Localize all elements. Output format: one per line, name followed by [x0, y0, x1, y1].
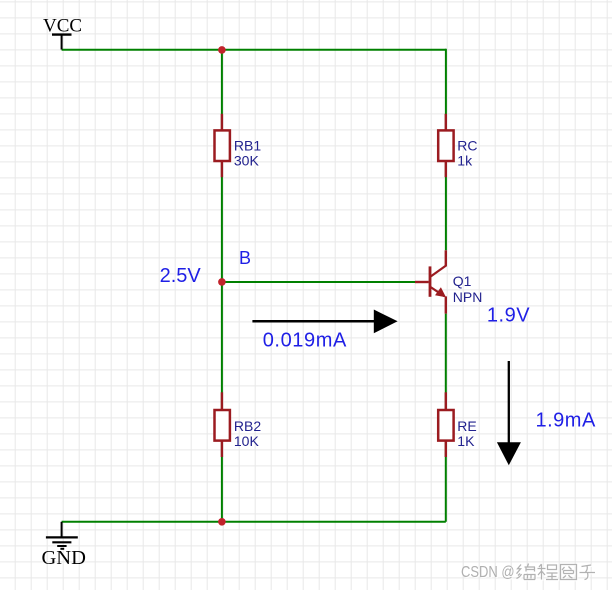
label GND: [42, 547, 86, 569]
label RC 1k: [457, 138, 477, 169]
annotation 1.9V: [487, 305, 530, 327]
svg-text:CSDN @: CSDN @: [461, 564, 515, 581]
svg-text:RB2: RB2: [234, 418, 261, 434]
svg-text:1.9V: 1.9V: [487, 305, 530, 327]
transistor Q1: [415, 250, 446, 313]
annotation 1.9mA: [536, 410, 596, 432]
label RE 1K: [457, 418, 476, 449]
label RB2 10K: [234, 418, 261, 449]
arrow base current right: [252, 310, 397, 334]
label VCC: [43, 15, 82, 36]
wire top rail VCC to RC branch: [62, 49, 446, 51]
annotation 0.019mA: [263, 330, 347, 352]
resistor RB2: [215, 392, 230, 457]
svg-text:10K: 10K: [234, 433, 260, 449]
svg-text:Q1: Q1: [453, 273, 472, 289]
svg-text:0.019mA: 0.019mA: [263, 330, 347, 352]
label Q1 NPN: [453, 273, 483, 305]
svg-text:RE: RE: [457, 418, 476, 434]
svg-text:30K: 30K: [234, 153, 260, 169]
power VCC: [52, 35, 72, 50]
svg-text:NPN: NPN: [453, 289, 483, 305]
arrow emitter current down: [497, 361, 521, 465]
watermark CSDN: [461, 564, 596, 583]
svg-text:1K: 1K: [457, 433, 475, 449]
svg-text:RC: RC: [457, 138, 477, 154]
junction bottom: [218, 518, 226, 526]
svg-text:2.5V: 2.5V: [160, 265, 202, 287]
label RB1 30K: [234, 138, 261, 169]
wire base node B to Q1: [222, 281, 415, 283]
junction node B: [218, 278, 226, 286]
resistor RE: [438, 392, 453, 457]
svg-text:B: B: [239, 248, 251, 268]
annotation 2.5V: [160, 265, 202, 287]
svg-text:1k: 1k: [457, 153, 473, 169]
junction top: [218, 46, 226, 54]
wire right vertical branch lower: [445, 314, 447, 522]
svg-text:1.9mA: 1.9mA: [536, 410, 596, 432]
wire left vertical branch: [221, 50, 223, 522]
wire bottom rail GND: [62, 521, 446, 523]
wire right vertical branch upper: [445, 49, 447, 251]
svg-text:RB1: RB1: [234, 138, 261, 154]
resistor RB1: [215, 114, 230, 177]
resistor RC: [438, 114, 453, 177]
ground GND: [46, 522, 78, 549]
svg-text:VCC: VCC: [43, 15, 82, 36]
svg-text:GND: GND: [42, 547, 86, 569]
node B name: [239, 248, 251, 268]
